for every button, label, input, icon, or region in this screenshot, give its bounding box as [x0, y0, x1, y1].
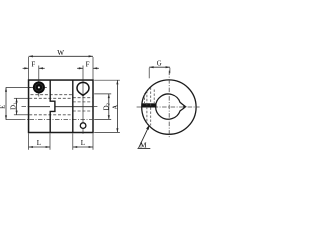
dimension F left	[23, 60, 45, 69]
front center line vertical	[168, 71, 170, 138]
dimension E	[0, 88, 31, 120]
dimension L left	[29, 133, 51, 150]
hidden bore line D1 bottom	[29, 114, 72, 116]
right screw axis	[82, 66, 84, 134]
dimension D2	[94, 94, 111, 120]
hidden clamp screw hole front	[147, 88, 151, 126]
dimension F right	[77, 60, 99, 69]
front center line horizontal	[137, 106, 200, 108]
hidden slit clearance right hub	[73, 102, 92, 111]
svg-text:L: L	[81, 139, 85, 147]
dimension W	[29, 49, 94, 79]
hidden bore line D1 top	[29, 97, 92, 100]
svg-text:G: G	[157, 60, 162, 67]
front view outer circle	[142, 80, 196, 134]
svg-text:F: F	[86, 60, 90, 68]
hidden screw counterbore front	[144, 90, 154, 104]
hidden counterbore line	[31, 94, 73, 96]
jaw boundary with tab	[50, 80, 55, 132]
label M leader	[138, 125, 151, 150]
svg-text:E: E	[0, 105, 7, 109]
main center line side view	[22, 106, 98, 108]
clamp screw head left hub	[33, 81, 45, 93]
dimension L right	[73, 133, 93, 150]
clamp screw pocket right hub	[77, 82, 89, 95]
dimension G	[149, 60, 170, 78]
svg-text:D2: D2	[103, 102, 110, 110]
svg-text:L: L	[37, 139, 41, 147]
left screw axis	[29, 66, 47, 97]
dimension A	[94, 80, 120, 132]
screw hole end right hub	[80, 123, 86, 129]
right hub boundary	[72, 80, 74, 132]
svg-text:F: F	[31, 60, 35, 68]
svg-text:M: M	[140, 141, 147, 150]
svg-text:A: A	[112, 105, 119, 110]
front slit	[142, 103, 157, 107]
front view bore circle with keyway beak	[156, 94, 186, 119]
slit line middle and right hub	[55, 106, 93, 108]
hub body outline	[29, 80, 93, 132]
slit line left hub	[29, 106, 50, 108]
hidden screw axis line lower	[6, 119, 92, 121]
svg-text:W: W	[57, 49, 64, 57]
svg-text:D1: D1	[10, 102, 17, 110]
dimension D1	[10, 98, 28, 115]
